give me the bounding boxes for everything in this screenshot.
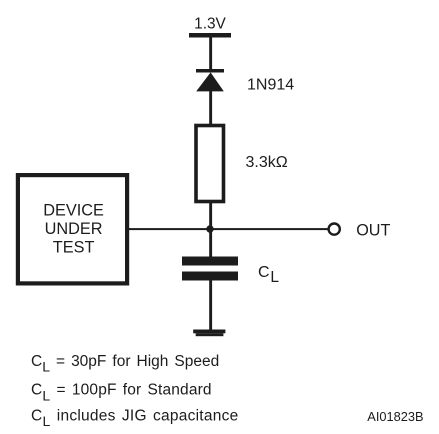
wire diode to resistor xyxy=(209,91,212,125)
svg-text:L: L xyxy=(270,269,279,286)
svg-text:DEVICE: DEVICE xyxy=(43,201,104,219)
diode D1 cathode bar xyxy=(196,69,224,73)
svg-text:1N914: 1N914 xyxy=(247,77,294,94)
svg-text:TEST: TEST xyxy=(53,239,95,257)
resistor R1 body xyxy=(196,126,224,202)
diode D1 triangle (anode) xyxy=(196,72,224,91)
OUT terminal circle xyxy=(329,224,340,235)
power rail 1.3V bar xyxy=(189,33,231,38)
wire rail to diode cathode xyxy=(209,37,212,70)
wire capacitor to ground xyxy=(209,280,212,330)
svg-text:UNDER: UNDER xyxy=(45,220,103,238)
ground symbol xyxy=(193,330,225,334)
DUT box xyxy=(18,175,127,283)
capacitor CL top plate xyxy=(182,257,238,266)
wire resistor to node xyxy=(209,202,212,230)
wire DUT to OUT xyxy=(129,228,330,230)
node junction dot xyxy=(206,225,213,232)
svg-text:AI01823B: AI01823B xyxy=(367,409,423,424)
svg-text:C: C xyxy=(258,264,270,281)
capacitor CL bottom plate xyxy=(182,272,238,281)
wire node to capacitor xyxy=(209,229,212,258)
svg-text:1.3V: 1.3V xyxy=(194,16,226,33)
svg-text:OUT: OUT xyxy=(356,222,390,240)
svg-text:3.3kΩ: 3.3kΩ xyxy=(246,154,288,171)
